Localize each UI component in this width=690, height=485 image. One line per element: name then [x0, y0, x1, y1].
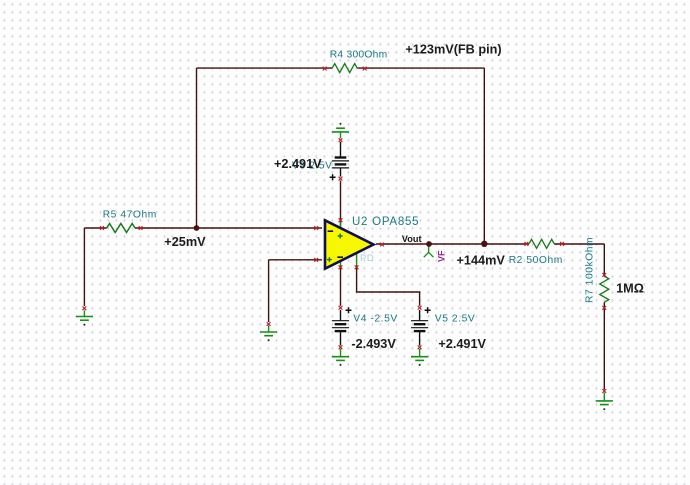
svg-text:R5 47Ohm: R5 47Ohm — [103, 209, 157, 220]
svg-text:R4 300Ohm: R4 300Ohm — [330, 50, 388, 61]
svg-text:Vout: Vout — [402, 234, 422, 244]
svg-text:R7 100kOhm: R7 100kOhm — [585, 237, 596, 303]
svg-text:+144mV: +144mV — [457, 254, 506, 268]
svg-text:+123mV(FB pin): +123mV(FB pin) — [405, 43, 501, 57]
svg-text:VF: VF — [437, 250, 447, 262]
svg-text:-2.493V: -2.493V — [351, 337, 396, 351]
svg-text:R2 50Ohm: R2 50Ohm — [509, 255, 563, 266]
svg-text:+2.491V: +2.491V — [274, 157, 322, 171]
svg-text:U2 OPA855: U2 OPA855 — [352, 216, 419, 228]
svg-text:+2.491V: +2.491V — [438, 337, 486, 351]
svg-text:PD: PD — [360, 253, 374, 264]
svg-text:V4 -2.5V: V4 -2.5V — [353, 314, 397, 325]
svg-text:+25mV: +25mV — [164, 235, 206, 249]
svg-text:V5 2.5V: V5 2.5V — [435, 314, 476, 325]
svg-text:1MΩ: 1MΩ — [616, 281, 644, 295]
